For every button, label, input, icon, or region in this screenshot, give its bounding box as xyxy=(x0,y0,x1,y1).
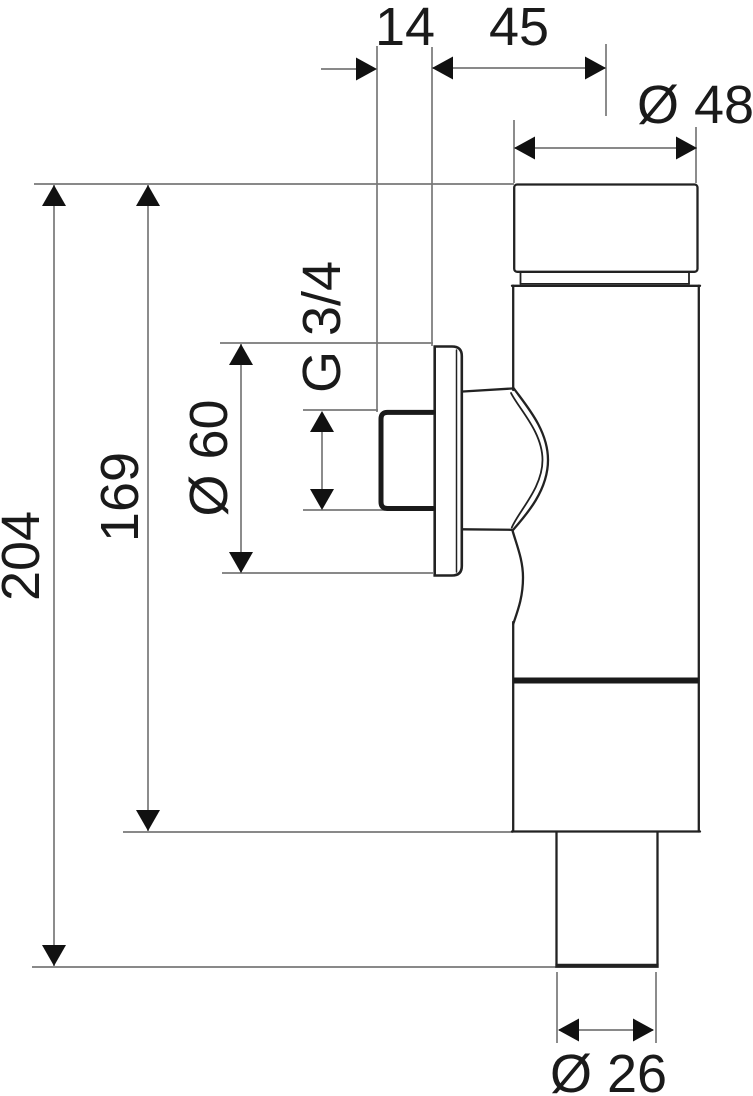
svg-text:169: 169 xyxy=(90,452,150,542)
svg-text:Ø 26: Ø 26 xyxy=(550,1044,667,1096)
svg-text:Ø 60: Ø 60 xyxy=(179,399,239,516)
svg-text:45: 45 xyxy=(489,0,549,57)
svg-text:G 3/4: G 3/4 xyxy=(292,261,352,393)
svg-text:204: 204 xyxy=(0,511,51,601)
svg-text:14: 14 xyxy=(375,0,435,57)
svg-text:Ø 48: Ø 48 xyxy=(637,75,753,135)
